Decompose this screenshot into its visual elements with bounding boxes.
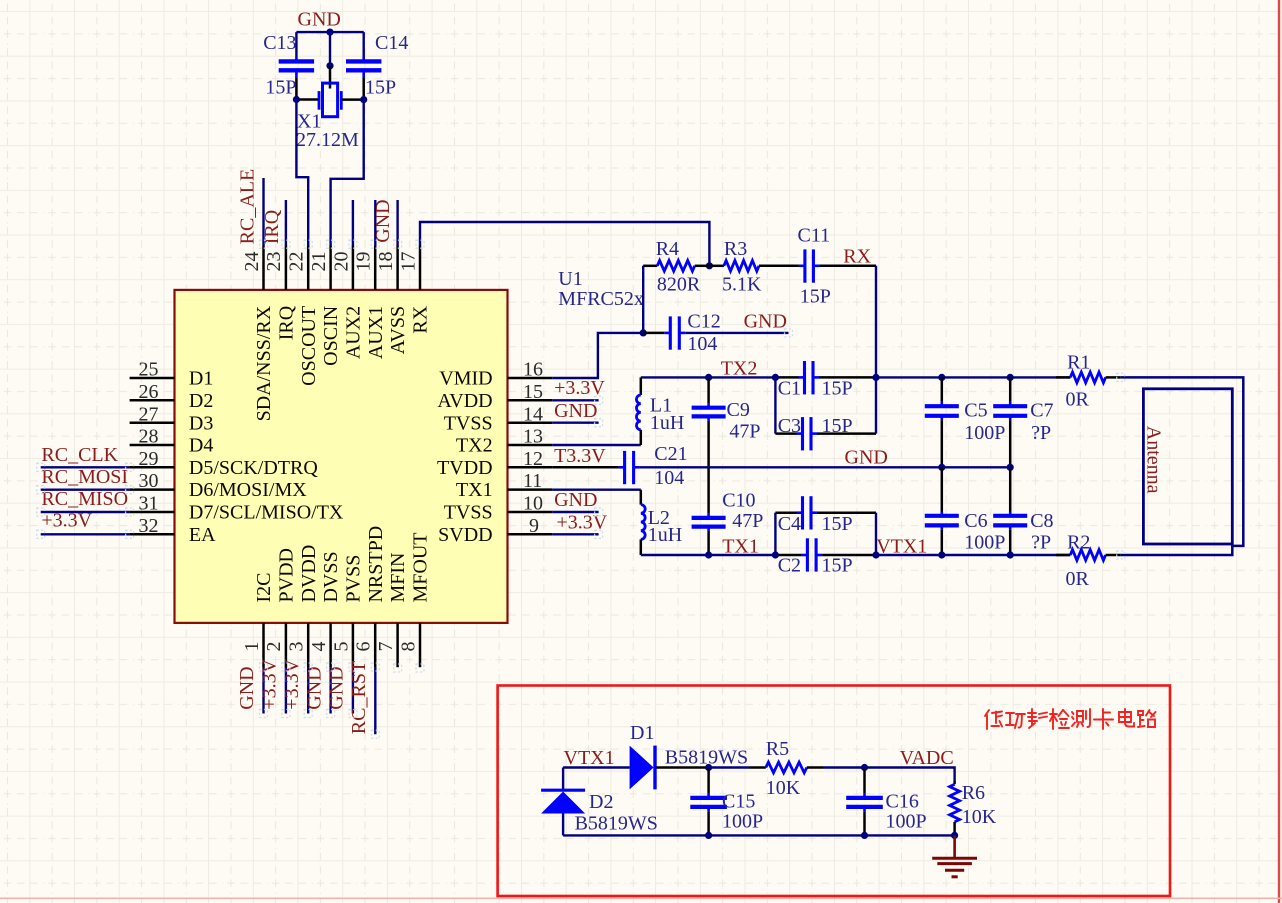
junction crystal right node: [360, 96, 367, 103]
junction R4-R3 node: [706, 262, 713, 269]
svg-text:+3.3V: +3.3V: [281, 658, 303, 709]
svg-text:104: 104: [687, 333, 717, 355]
capacitor C4: [797, 496, 818, 529]
pin 25 D1: [130, 359, 214, 390]
pin 8 MFOUT: [397, 532, 431, 667]
svg-text:C15: C15: [722, 791, 755, 813]
wire top row to R6: [865, 768, 955, 782]
svg-text:15P: 15P: [822, 513, 853, 535]
wire stub pin 30 net RC_MOSI: [41, 489, 130, 491]
pin 26 D2: [130, 381, 214, 412]
junction C12 node: [640, 329, 647, 336]
pin 23 IRQ: [263, 246, 297, 341]
svg-text:I2C: I2C: [253, 573, 275, 603]
low power card detection circuit box: [498, 686, 1170, 897]
svg-text:9: 9: [529, 515, 539, 537]
svg-text:EA: EA: [189, 524, 216, 546]
svg-text:D7/SCL/MISO/TX: D7/SCL/MISO/TX: [189, 502, 344, 524]
svg-text:1uH: 1uH: [648, 524, 682, 546]
svg-text:4: 4: [308, 642, 330, 652]
junction TX2-C5: [938, 374, 945, 381]
svg-text:SVDD: SVDD: [438, 524, 492, 546]
svg-text:RX: RX: [843, 245, 871, 267]
svg-text:B5819WS: B5819WS: [575, 813, 658, 835]
capacitor C5: [925, 377, 959, 467]
wire pin 16 VMID to C12 node: [552, 333, 643, 378]
svg-text:D2: D2: [589, 791, 613, 813]
junction bottom-C15: [705, 832, 712, 839]
junction TX2-C1 left: [772, 374, 779, 381]
pin 15 AVDD: [437, 381, 552, 412]
svg-text:RC_CLK: RC_CLK: [41, 444, 118, 466]
inductor L2: [641, 490, 645, 555]
wire TX1 row left: [641, 554, 776, 556]
pin 19 AUX1: [353, 246, 387, 360]
svg-text:15P: 15P: [265, 77, 296, 99]
svg-text:R2: R2: [1067, 531, 1090, 553]
pin 13 TX2: [456, 426, 552, 457]
svg-text:5.1K: 5.1K: [722, 273, 762, 295]
svg-text:TVSS: TVSS: [444, 412, 493, 434]
wire stub pin 4 net GND: [329, 667, 331, 714]
svg-text:6: 6: [353, 642, 375, 652]
svg-text:GND: GND: [236, 666, 258, 709]
svg-text:PVSS: PVSS: [343, 555, 365, 603]
capacitor C3 loop wires: [774, 377, 776, 433]
wire antenna loop top: [1121, 377, 1244, 555]
svg-text:15: 15: [523, 381, 543, 403]
junction bottom-R6: [951, 832, 958, 839]
capacitor C10: [692, 467, 726, 555]
ground symbol: [932, 835, 977, 876]
svg-text:15P: 15P: [365, 77, 396, 99]
pin 18 AVSS: [375, 246, 409, 355]
svg-text:T3.3V: T3.3V: [554, 445, 606, 467]
wire stub pin 1 net GND: [262, 667, 264, 714]
wire RX down to TX2 row: [875, 266, 877, 378]
pin 32 EA: [130, 515, 217, 546]
pin 9 SVDD: [438, 515, 552, 546]
pin 31 D7/SCL/MISO/TX: [130, 493, 344, 524]
svg-text:D1: D1: [189, 368, 213, 390]
junction bottom-C16: [861, 832, 868, 839]
svg-text:26: 26: [139, 381, 159, 403]
resistor R1: [1056, 372, 1121, 383]
svg-text:AVSS: AVSS: [387, 306, 409, 355]
capacitor C11: [799, 249, 876, 282]
pin 3 DVDD: [286, 545, 320, 667]
junction TX2-C9: [705, 374, 712, 381]
svg-text:GND: GND: [303, 666, 325, 709]
svg-text:MFIN: MFIN: [387, 552, 409, 602]
svg-text:DVSS: DVSS: [320, 551, 342, 602]
junction GND-C5: [938, 464, 945, 471]
svg-text:27: 27: [139, 403, 159, 425]
svg-text:3: 3: [286, 642, 308, 652]
pin 2 PVDD: [263, 548, 297, 667]
pin 10 TVSS: [444, 493, 553, 524]
capacitor C6: [925, 467, 959, 555]
resistor R4: [643, 261, 709, 272]
wire stub pin 29 net RC_CLK: [41, 466, 130, 468]
wire pin 11 TX1: [552, 489, 641, 491]
wire stub pin 2 net +3.3V: [285, 667, 287, 714]
pin 16 VMID: [439, 359, 552, 390]
capacitor C16: [846, 768, 883, 836]
antenna body rectangle: [1143, 389, 1232, 544]
svg-text:TX1: TX1: [722, 536, 759, 558]
junction top-C16: [861, 764, 868, 771]
svg-text:D4: D4: [189, 435, 213, 457]
svg-text:RC_MOSI: RC_MOSI: [41, 466, 128, 488]
svg-text:PVDD: PVDD: [276, 548, 298, 602]
resistor R6: [950, 781, 960, 835]
svg-text:C21: C21: [654, 443, 687, 465]
svg-text:30: 30: [139, 470, 159, 492]
sheet border right: [1278, 0, 1280, 903]
diode D1: [630, 746, 709, 790]
svg-text:GND: GND: [326, 666, 348, 709]
capacitor C15: [690, 768, 727, 836]
wire stub pin 24 net RC_ALE: [262, 178, 264, 246]
wire pin 13 TX2: [552, 444, 641, 446]
junction VTX1-C8: [1007, 551, 1014, 558]
svg-text:14: 14: [523, 403, 543, 425]
svg-text:AUX1: AUX1: [365, 306, 387, 359]
svg-text:+3.3V: +3.3V: [41, 510, 92, 532]
svg-text:C8: C8: [1030, 510, 1053, 532]
svg-text:TX2: TX2: [456, 435, 493, 457]
svg-text:VTX1: VTX1: [564, 747, 615, 769]
junction VTX1-C6: [938, 551, 945, 558]
svg-text:?P: ?P: [1031, 422, 1051, 444]
svg-text:15P: 15P: [800, 286, 831, 308]
svg-text:8: 8: [397, 642, 419, 652]
pin 6 NRSTPD: [353, 526, 387, 667]
junction TX2-RX node: [872, 374, 879, 381]
pin 11 TX1: [456, 470, 552, 501]
svg-text:C3: C3: [778, 415, 801, 437]
svg-text:C2: C2: [778, 554, 801, 576]
svg-text:OSCIN: OSCIN: [320, 306, 342, 366]
svg-text:27.12M: 27.12M: [296, 129, 359, 151]
svg-text:100P: 100P: [722, 811, 763, 833]
junction TX2-C7: [1007, 374, 1014, 381]
svg-text:47P: 47P: [732, 510, 763, 532]
svg-text:19: 19: [353, 252, 375, 272]
svg-text:C7: C7: [1030, 399, 1053, 421]
junction GND-C7: [1007, 464, 1014, 471]
svg-text:GND: GND: [372, 199, 394, 242]
svg-text:GND: GND: [554, 400, 597, 422]
capacitor C8: [993, 467, 1027, 555]
pin 24 SDA/NSS/RX: [241, 246, 275, 422]
svg-text:10K: 10K: [766, 777, 801, 799]
svg-text:RC_MISO: RC_MISO: [41, 488, 128, 510]
svg-text:AVDD: AVDD: [437, 390, 492, 412]
svg-text:28: 28: [139, 426, 159, 448]
capacitor C21: [552, 451, 639, 484]
svg-text:D6/MOSI/MX: D6/MOSI/MX: [189, 479, 307, 501]
svg-text:0R: 0R: [1066, 568, 1090, 590]
svg-text:C9: C9: [727, 399, 750, 421]
crystal X1: [296, 83, 363, 117]
svg-text:22: 22: [286, 252, 308, 272]
capacitor C7: [993, 377, 1027, 467]
hotspot markers: [37, 240, 1125, 738]
junction rail center: [326, 28, 333, 35]
svg-text:15P: 15P: [822, 554, 853, 576]
svg-text:25: 25: [139, 359, 159, 381]
capacitor C12: [643, 316, 788, 349]
svg-text:31: 31: [139, 493, 159, 515]
svg-text:100P: 100P: [886, 811, 927, 833]
svg-text:RC_RST: RC_RST: [348, 661, 370, 734]
svg-text:C11: C11: [798, 225, 831, 247]
capacitor C9: [692, 377, 726, 467]
svg-text:R1: R1: [1067, 352, 1090, 374]
svg-text:R5: R5: [766, 738, 789, 760]
pin 30 D6/MOSI/MX: [130, 470, 308, 501]
wire stub pin 23 net IRQ: [285, 200, 287, 246]
svg-text:R6: R6: [962, 782, 985, 804]
svg-text:10K: 10K: [962, 806, 997, 828]
junction crystal top node: [326, 62, 333, 69]
resistor R5: [709, 762, 865, 773]
svg-text:12: 12: [523, 448, 543, 470]
svg-text:11: 11: [523, 470, 542, 492]
wire crystal left leg to pin 22: [296, 100, 308, 246]
svg-text:VTX1: VTX1: [876, 536, 927, 558]
pin 28 D4: [130, 426, 214, 457]
svg-text:AUX2: AUX2: [343, 306, 365, 359]
junction TX1-C10: [705, 551, 712, 558]
svg-text:100P: 100P: [964, 531, 1005, 553]
svg-text:15P: 15P: [822, 415, 853, 437]
svg-text:10: 10: [523, 493, 543, 515]
pin 22 OSCOUT: [286, 246, 320, 386]
pin 4 DVSS: [308, 551, 342, 667]
wire pin 17 to R4 node: [420, 222, 709, 266]
svg-text:IRQ: IRQ: [261, 209, 283, 244]
svg-text:24: 24: [241, 252, 263, 272]
svg-text:DVDD: DVDD: [298, 545, 320, 603]
svg-text:OSCOUT: OSCOUT: [298, 306, 320, 386]
svg-text:1: 1: [241, 642, 263, 652]
svg-text:MFOUT: MFOUT: [410, 532, 432, 602]
svg-text:104: 104: [654, 467, 684, 489]
wire GND row: [640, 466, 1011, 468]
junction TX1-C4 right: [872, 551, 879, 558]
svg-text:C6: C6: [964, 510, 987, 532]
svg-text:Antenna: Antenna: [1142, 426, 1164, 494]
svg-text:20: 20: [330, 252, 352, 272]
svg-text:GND: GND: [744, 311, 787, 333]
svg-text:C13: C13: [263, 32, 296, 54]
wire stub pin 3 net +3.3V: [307, 667, 309, 714]
sheet border bottom: [0, 897, 1282, 899]
svg-text:RX: RX: [410, 305, 432, 333]
wire rail to crystal: [329, 32, 331, 66]
svg-text:R3: R3: [724, 238, 747, 260]
svg-text:32: 32: [139, 515, 159, 537]
capacitor C13: [279, 32, 314, 99]
svg-text:GND: GND: [554, 489, 597, 511]
pin 14 TVSS: [444, 403, 553, 434]
pin crystal top lead: [329, 66, 332, 89]
svg-text:1uH: 1uH: [650, 412, 684, 434]
capacitor C4 loop wires: [774, 513, 776, 555]
resistor R2: [1056, 550, 1121, 561]
svg-text:TX2: TX2: [721, 357, 758, 379]
svg-text:NRSTPD: NRSTPD: [365, 526, 387, 603]
svg-text:D3: D3: [189, 412, 213, 434]
capacitor C2: [801, 538, 822, 571]
svg-text:C1: C1: [778, 377, 801, 399]
wire stub pin 20: [352, 200, 354, 246]
svg-text:17: 17: [397, 252, 419, 272]
wire crystal right leg to pin 21: [331, 100, 364, 246]
svg-text:GND: GND: [845, 446, 888, 468]
junction top-C15: [705, 764, 712, 771]
pin 7 MFIN: [375, 552, 409, 667]
svg-text:13: 13: [523, 426, 543, 448]
capacitor C14: [346, 32, 381, 100]
inductor L1: [636, 377, 640, 445]
junction crystal left node: [293, 96, 300, 103]
box title 低功耗检测卡电路 (drawn strokes): [985, 709, 1156, 729]
svg-text:MFRC52x: MFRC52x: [558, 288, 644, 310]
junction TX1-C4 left: [772, 551, 779, 558]
svg-text:C16: C16: [886, 791, 919, 813]
svg-text:16: 16: [523, 359, 543, 381]
svg-text:21: 21: [308, 252, 330, 272]
pin 17 RX: [397, 246, 431, 334]
wire stub pin 5 net GND: [352, 667, 354, 714]
svg-text:15P: 15P: [822, 377, 853, 399]
capacitor C1: [799, 361, 820, 394]
svg-text:47P: 47P: [729, 421, 760, 443]
wire stub pin 6 net RC_RST: [374, 667, 376, 734]
pin 1 I2C: [241, 573, 275, 668]
wire GND rail: [296, 31, 363, 33]
svg-text:7: 7: [375, 642, 397, 652]
resistor R3: [709, 261, 799, 272]
wire stub pin 31 net RC_MISO: [41, 511, 130, 513]
svg-text:R4: R4: [656, 238, 679, 260]
svg-text:SDA/NSS/RX: SDA/NSS/RX: [253, 305, 275, 421]
svg-text:VMID: VMID: [439, 368, 492, 390]
wire stub pin 10 net GND: [552, 511, 598, 513]
wire TX1 row right: [822, 554, 876, 557]
svg-text:U1: U1: [558, 268, 582, 290]
svg-text:+3.3V: +3.3V: [259, 658, 281, 709]
wire bottom row: [563, 834, 955, 836]
wire TX2 row: [641, 376, 776, 378]
svg-text:C12: C12: [687, 311, 720, 333]
svg-text:820R: 820R: [657, 273, 701, 295]
svg-text:?P: ?P: [1031, 531, 1051, 553]
svg-text:C4: C4: [778, 513, 801, 535]
wire stub pin 15 net +3.3V: [552, 399, 598, 401]
svg-text:D2: D2: [189, 390, 213, 412]
svg-text:RC_ALE: RC_ALE: [237, 169, 259, 245]
pin 27 D3: [130, 403, 214, 434]
svg-text:C10: C10: [722, 490, 755, 512]
svg-text:29: 29: [139, 448, 159, 470]
svg-text:VADC: VADC: [900, 747, 954, 769]
svg-text:C14: C14: [375, 32, 408, 54]
svg-text:2: 2: [263, 642, 285, 652]
wire stub pin 32 net +3.3V: [41, 533, 130, 535]
svg-text:C5: C5: [964, 399, 987, 421]
pin 21 OSCIN: [308, 246, 342, 366]
svg-text:D5/SCK/DTRQ: D5/SCK/DTRQ: [189, 457, 318, 479]
pin 12 TVDD: [437, 448, 552, 479]
svg-text:GND: GND: [298, 9, 341, 31]
wire VTX1 top row: [563, 766, 630, 768]
pin 5 PVSS: [330, 555, 364, 668]
wire stub pin 19: [374, 200, 376, 246]
svg-text:TX1: TX1: [456, 479, 493, 501]
svg-text:100P: 100P: [964, 422, 1005, 444]
pin 29 D5/SCK/DTRQ: [130, 448, 319, 479]
wire stub pin 18 net GND: [396, 200, 398, 246]
svg-text:TVSS: TVSS: [444, 502, 493, 524]
svg-text:5: 5: [330, 642, 352, 652]
svg-text:TVDD: TVDD: [437, 457, 493, 479]
pin 20 AUX2: [330, 246, 364, 360]
wire left branch: [562, 768, 564, 792]
svg-text:IRQ: IRQ: [276, 305, 298, 340]
svg-text:0R: 0R: [1066, 388, 1090, 410]
svg-text:18: 18: [375, 252, 397, 272]
op-amp U1 MFRC52x IC body: [175, 290, 508, 623]
diode D2: [541, 790, 585, 813]
svg-text:D1: D1: [630, 722, 654, 744]
capacitor C3: [797, 417, 818, 450]
wire C12 node up to R4: [642, 266, 644, 333]
svg-text:+3.3V: +3.3V: [554, 377, 605, 399]
wire stub pin 14 net GND: [552, 422, 598, 424]
svg-text:23: 23: [263, 252, 285, 272]
wire stub pin 9 net +3.3V: [552, 533, 598, 535]
